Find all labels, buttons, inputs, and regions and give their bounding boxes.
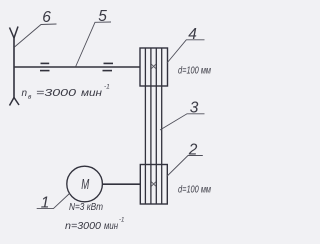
svg-text:=3000: =3000 xyxy=(36,88,77,99)
svg-text:-1: -1 xyxy=(119,218,124,224)
pulley 2 axis cross xyxy=(151,182,155,186)
svg-text:в: в xyxy=(28,94,32,101)
svg-text:d=100 мм: d=100 мм xyxy=(178,66,211,77)
svg-text:6: 6 xyxy=(42,9,51,26)
shaft 5 (horizontal drive shaft) xyxy=(14,66,140,68)
svg-text:M: M xyxy=(81,176,89,193)
svg-text:4: 4 xyxy=(188,26,197,43)
svg-text:3: 3 xyxy=(190,100,199,117)
belt 3: four vertical belt/groove lines xyxy=(144,48,146,204)
motor M1 circle xyxy=(67,166,103,202)
svg-text:-1: -1 xyxy=(104,84,110,91)
svg-text:n=3000: n=3000 xyxy=(65,221,101,232)
leader 2 xyxy=(167,156,203,177)
fan top Y blades xyxy=(10,27,19,39)
paper background xyxy=(0,0,224,244)
fan bottom inverted-Y blades xyxy=(10,98,20,106)
leader 5 xyxy=(76,22,111,67)
pulley 4 (top, driven) xyxy=(140,48,168,86)
bearing mark B (right) xyxy=(104,62,114,64)
bearing mark A (left) xyxy=(41,62,50,64)
svg-text:мин: мин xyxy=(104,221,118,232)
pulley 4 axis cross xyxy=(151,64,155,68)
svg-text:N=3 кВт: N=3 кВт xyxy=(69,202,103,213)
svg-text:n: n xyxy=(22,88,28,99)
pulley 2 (bottom, driver) xyxy=(140,165,167,205)
leader 6 xyxy=(15,24,57,47)
svg-text:5: 5 xyxy=(98,8,107,25)
svg-text:1: 1 xyxy=(41,195,50,212)
fan V6: vertical axis line xyxy=(13,38,15,99)
svg-text:мин: мин xyxy=(81,88,103,99)
leader 4 xyxy=(167,40,205,63)
svg-text:2: 2 xyxy=(188,142,198,159)
svg-text:d=100 мм: d=100 мм xyxy=(178,185,211,196)
leader 1 xyxy=(37,194,70,209)
motor shaft (motor to pulley 2) xyxy=(103,183,141,185)
leader 3 xyxy=(160,114,205,130)
